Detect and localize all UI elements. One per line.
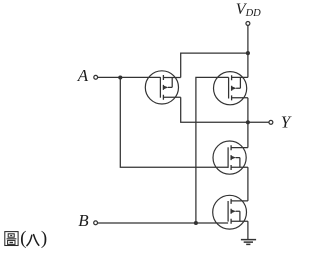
svg-text:VDD: VDD bbox=[236, 1, 261, 19]
transistor Q3 (NMOS, middle-right) bbox=[213, 141, 248, 174]
junction dot A bbox=[118, 75, 122, 79]
wire A to Q1 gate bbox=[98, 76, 161, 78]
svg-text:): ) bbox=[41, 228, 47, 249]
wire Q3 source to Q4 drain bbox=[247, 167, 249, 201]
wire Q4 source to ground bbox=[247, 221, 249, 239]
node A label bbox=[77, 66, 89, 85]
wire B to Q4 gate bbox=[98, 222, 229, 224]
svg-text:(: ( bbox=[20, 228, 26, 249]
terminal Y (open circle) bbox=[269, 120, 273, 124]
wire A riser down and over to Q3 gate bbox=[120, 77, 228, 167]
wire Q2 drain down to Y bbox=[247, 98, 249, 123]
junction dot Y bbox=[246, 120, 250, 124]
wire VDD down to top rail bbox=[247, 26, 249, 54]
node VDD label bbox=[236, 1, 261, 19]
wire top rail with Q1 source riser bbox=[181, 53, 248, 77]
junction dot VDD rail bbox=[246, 51, 250, 55]
terminal B (open circle) bbox=[94, 221, 98, 225]
transistor Q1 (PMOS, top-left) bbox=[145, 71, 180, 104]
glyph 圖 drawn manually bbox=[5, 232, 18, 246]
svg-text:B: B bbox=[78, 211, 89, 230]
wire Q1 drain riser and Y rail bbox=[181, 97, 269, 122]
junction dot B bbox=[194, 221, 198, 225]
svg-text:A: A bbox=[77, 66, 89, 85]
figure caption 圖(八) bbox=[5, 228, 47, 249]
node Y label bbox=[281, 113, 292, 132]
node B label bbox=[78, 211, 89, 230]
transistor Q4 (NMOS, bottom-right) bbox=[213, 195, 248, 229]
svg-text:Y: Y bbox=[281, 113, 292, 132]
transistor Q2 (PMOS, top-right) bbox=[214, 72, 248, 105]
terminal VDD (open circle) bbox=[246, 21, 250, 25]
ground bbox=[241, 240, 256, 245]
wire VDD rail down to Q2 source bbox=[247, 53, 249, 77]
wire B riser up to Q2 gate bbox=[196, 77, 229, 223]
wire Y down to Q3 drain bbox=[247, 122, 249, 147]
glyph 八 drawn manually bbox=[27, 235, 39, 246]
terminal A (open circle) bbox=[94, 75, 98, 79]
